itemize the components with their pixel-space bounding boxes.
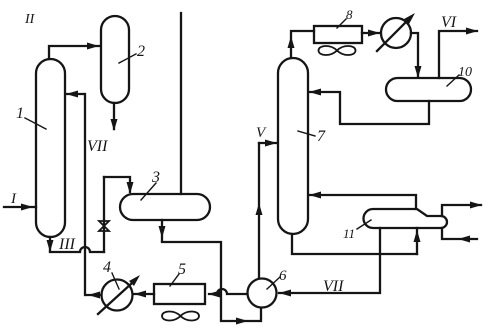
wire: pump 4 discharge to riser	[86, 292, 101, 299]
wire: column 1 bottoms (stream III)	[47, 237, 105, 252]
wire: stream VI from drum 10	[439, 28, 478, 79]
svg-text:8: 8	[346, 7, 353, 22]
wire: pump 9 to drum 10	[411, 33, 422, 78]
svg-text:VII: VII	[323, 278, 344, 295]
label 10	[447, 65, 472, 86]
vessel 2	[101, 16, 129, 103]
label 1	[16, 105, 46, 129]
air cooler 5	[154, 284, 205, 304]
wire: drum 10 bottoms reflux to column 7	[309, 89, 429, 125]
heat exchanger 6	[248, 279, 277, 308]
wire: cooler 5 to pump 4	[134, 291, 154, 298]
svg-text:5: 5	[178, 261, 186, 278]
svg-text:II: II	[24, 12, 36, 27]
label 3	[141, 169, 160, 200]
wire: exchanger 6 to air cooler 5	[208, 289, 247, 298]
wire: reboiler 11 vapor to column 7	[309, 192, 416, 210]
wire: cooler 8 to pump 9	[362, 30, 380, 37]
svg-text:VII: VII	[87, 138, 108, 155]
svg-text:III: III	[58, 236, 76, 253]
wire: reflux return into column 1 top	[66, 91, 84, 98]
wire: drum 3 bottoms to exchanger 6	[159, 220, 262, 325]
label 7	[298, 128, 326, 145]
svg-text:V: V	[256, 125, 267, 141]
wire: column 7 overhead to air cooler 8	[288, 31, 315, 58]
svg-text:6: 6	[279, 268, 287, 284]
label 11	[343, 220, 371, 241]
fan of cooler 5	[162, 311, 199, 320]
column 7	[278, 58, 308, 234]
svg-text:10: 10	[458, 65, 472, 80]
wire: feed line into drum 3	[180, 13, 182, 194]
wire: kettle tube bottom inlet	[442, 228, 477, 243]
svg-text:11: 11	[343, 226, 355, 241]
column 1	[36, 59, 65, 237]
drum 3	[120, 194, 210, 220]
air cooler 8	[314, 26, 362, 43]
svg-text:I: I	[10, 191, 17, 207]
label 4	[103, 259, 119, 289]
wire: stream VII from reboiler to exchanger 6	[279, 228, 380, 297]
wire: VII riser from pump 4 to column 1	[84, 94, 86, 295]
wire: feed I into column 1	[4, 204, 36, 211]
drum 10	[386, 78, 471, 101]
fan of cooler 8	[319, 46, 356, 55]
wire: kettle tube top outlet	[442, 202, 482, 217]
wire: vessel 2 bottom outlet (stream II)	[111, 103, 118, 131]
valve	[99, 221, 109, 231]
svg-text:3: 3	[151, 169, 160, 186]
wire: into drum 3 top	[104, 177, 134, 194]
svg-text:1: 1	[16, 105, 24, 122]
label 6	[267, 268, 287, 289]
wire: riser to valve	[103, 177, 105, 252]
label 8	[337, 7, 353, 28]
label 5	[170, 261, 186, 286]
wire: stream V from exchanger 6 to column 7	[256, 140, 278, 278]
wire: column 1 overhead to vessel 2	[49, 43, 99, 60]
wire: column 7 bottoms to reboiler 11	[292, 228, 421, 254]
pump 4	[98, 275, 140, 314]
pump 9	[377, 13, 415, 51]
svg-text:VI: VI	[441, 14, 457, 31]
svg-text:7: 7	[317, 128, 326, 145]
svg-text:2: 2	[137, 43, 145, 60]
label 2	[119, 43, 145, 63]
kettle reboiler 11	[364, 209, 448, 228]
svg-text:4: 4	[103, 259, 111, 276]
